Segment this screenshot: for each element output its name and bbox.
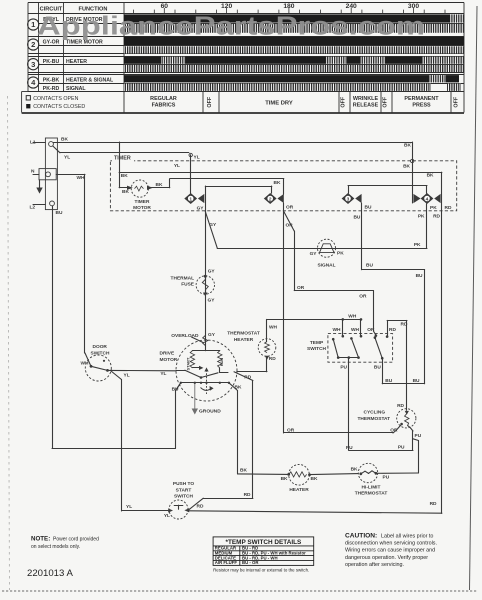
svg-text:YL: YL	[126, 504, 132, 510]
svg-text:HEATER: HEATER	[234, 337, 254, 343]
svg-text:PK: PK	[337, 251, 344, 257]
svg-text:BK: BK	[235, 384, 242, 390]
svg-text:SWITCH: SWITCH	[174, 493, 193, 499]
svg-text:BK: BK	[403, 164, 410, 170]
svg-text:RD: RD	[397, 403, 404, 409]
svg-text:BK: BK	[404, 143, 411, 149]
svg-text:BU: BU	[56, 210, 63, 216]
svg-text:GY: GY	[310, 251, 318, 257]
svg-text:2201013 A: 2201013 A	[27, 568, 73, 579]
svg-text:RUN: RUN	[219, 358, 224, 367]
svg-text:PRESS: PRESS	[412, 103, 431, 109]
svg-text:RD: RD	[433, 213, 440, 219]
svg-text:FUSE: FUSE	[181, 282, 195, 288]
svg-text:PU: PU	[415, 433, 422, 439]
svg-text:REGULAR: REGULAR	[150, 96, 177, 102]
svg-text:BK: BK	[281, 476, 288, 482]
svg-text:RD: RD	[389, 327, 396, 333]
svg-text:GY: GY	[208, 298, 216, 304]
svg-text:WH: WH	[81, 361, 90, 367]
svg-text:OFF: OFF	[341, 96, 347, 107]
svg-text:BK: BK	[121, 173, 128, 179]
svg-text:GY: GY	[208, 269, 216, 275]
svg-text:TIMER: TIMER	[135, 199, 150, 205]
svg-text:GY: GY	[197, 205, 205, 211]
svg-text:DRIVE: DRIVE	[160, 351, 175, 357]
svg-text:dangerous operation. Verify pr: dangerous operation. Verify proper	[345, 555, 428, 561]
svg-text:WH: WH	[269, 324, 278, 330]
svg-text:3: 3	[347, 196, 350, 202]
svg-text:BU: BU	[172, 387, 179, 393]
svg-text:PK-BU: PK-BU	[43, 59, 60, 65]
svg-text:SWITCH: SWITCH	[91, 350, 110, 356]
svg-text:TIMER: TIMER	[114, 155, 131, 161]
svg-text:SIGNAL: SIGNAL	[317, 263, 335, 269]
svg-text:FABRICS: FABRICS	[152, 103, 176, 109]
svg-text:BK: BK	[156, 182, 163, 188]
svg-text:RD: RD	[445, 205, 452, 211]
svg-text:PK-RD: PK-RD	[43, 86, 60, 92]
svg-text:YL: YL	[164, 513, 170, 519]
svg-text:CONTACTS CLOSED: CONTACTS CLOSED	[33, 104, 85, 110]
svg-text:BU: BU	[413, 378, 420, 384]
svg-text:PK-BK: PK-BK	[43, 78, 60, 84]
svg-text:AppliancePartsPros.com: AppliancePartsPros.com	[37, 13, 425, 41]
svg-text:PUSH TO: PUSH TO	[173, 481, 195, 487]
svg-text:2: 2	[269, 196, 272, 202]
svg-text:OR: OR	[367, 327, 375, 333]
svg-text:YL: YL	[160, 371, 166, 377]
svg-text:PERMANENT: PERMANENT	[404, 96, 439, 102]
svg-text:WH: WH	[351, 327, 360, 333]
svg-text:180: 180	[283, 3, 294, 10]
svg-text:PK: PK	[430, 205, 437, 211]
svg-text:OR: OR	[286, 204, 294, 210]
svg-text:1: 1	[189, 196, 192, 202]
svg-text:MOTOR: MOTOR	[133, 205, 151, 211]
svg-text:SIGNAL: SIGNAL	[66, 86, 86, 92]
svg-text:Wiring errors can cause improp: Wiring errors can cause improper and	[345, 548, 435, 554]
svg-text:HI-LIMIT: HI-LIMIT	[362, 485, 381, 491]
svg-text:OR: OR	[287, 428, 295, 434]
svg-text:on select models only.: on select models only.	[31, 544, 80, 550]
svg-text:TIME DRY: TIME DRY	[265, 101, 293, 107]
svg-text:BK: BK	[122, 189, 129, 195]
svg-text:BU: BU	[416, 273, 423, 279]
svg-text:300: 300	[408, 3, 419, 10]
svg-text:4: 4	[426, 196, 429, 202]
svg-text:START: START	[185, 357, 190, 370]
svg-text:BK: BK	[427, 173, 434, 179]
svg-text:GY: GY	[209, 222, 217, 228]
svg-text:2: 2	[31, 40, 35, 49]
svg-text:BK: BK	[311, 476, 318, 482]
svg-text:BK: BK	[274, 180, 281, 186]
svg-text:PU: PU	[383, 474, 390, 480]
svg-text:RD: RD	[269, 356, 276, 362]
svg-text:PK: PK	[418, 213, 425, 219]
svg-text:WH: WH	[348, 314, 357, 320]
svg-text:YL: YL	[194, 154, 200, 160]
svg-text:YL: YL	[124, 373, 130, 379]
svg-text:CYCLING: CYCLING	[364, 410, 386, 416]
svg-text:Label all wires prior to: Label all wires prior to	[381, 534, 433, 540]
svg-text:GY: GY	[208, 332, 216, 338]
svg-text:START: START	[176, 487, 192, 493]
svg-text:SWITCH: SWITCH	[307, 346, 326, 352]
svg-text:OR: OR	[390, 428, 398, 434]
svg-text:*TEMP SWITCH DETAILS: *TEMP SWITCH DETAILS	[226, 539, 302, 546]
svg-text:L1: L1	[30, 140, 36, 146]
svg-text:disconnection when servicing c: disconnection when servicing controls.	[345, 541, 437, 547]
svg-text:240: 240	[346, 3, 357, 10]
svg-text:operation after servicing.: operation after servicing.	[345, 562, 404, 568]
svg-text:OFF: OFF	[383, 96, 389, 107]
svg-text:GROUND: GROUND	[199, 409, 221, 415]
svg-text:RD: RD	[197, 504, 204, 510]
svg-text:CAUTION:: CAUTION:	[345, 533, 377, 540]
svg-text:BK: BK	[240, 468, 247, 474]
svg-text:WH: WH	[333, 327, 342, 333]
svg-text:PU: PU	[340, 365, 347, 371]
svg-text:60: 60	[161, 3, 169, 10]
svg-text:OR: OR	[297, 285, 305, 291]
svg-text:DOOR: DOOR	[93, 344, 108, 350]
svg-text:Resistor may be internal or ex: Resistor may be internal or external to …	[213, 567, 309, 572]
svg-text:WRINKLE: WRINKLE	[353, 96, 379, 102]
svg-text:RELEASE: RELEASE	[353, 103, 379, 109]
svg-text:NOTE:: NOTE:	[31, 536, 50, 543]
svg-text:HEATER: HEATER	[66, 59, 87, 65]
svg-text:BU: BU	[374, 365, 381, 371]
svg-text:OVERLOAD: OVERLOAD	[171, 333, 199, 339]
svg-text:PK: PK	[414, 242, 421, 248]
svg-text:HEATER & SIGNAL: HEATER & SIGNAL	[66, 78, 114, 84]
svg-text:BU: BU	[385, 378, 392, 384]
svg-text:OR: OR	[286, 223, 294, 229]
svg-text:BU - OR: BU - OR	[242, 560, 259, 565]
svg-text:THERMOSTAT: THERMOSTAT	[358, 416, 391, 422]
svg-text:FUNCTION: FUNCTION	[79, 6, 108, 12]
svg-text:3: 3	[31, 60, 35, 69]
svg-text:120: 120	[221, 3, 232, 10]
svg-text:BU: BU	[366, 263, 373, 269]
svg-text:WH: WH	[77, 175, 86, 181]
svg-text:AIR FLUFF: AIR FLUFF	[215, 560, 238, 565]
svg-text:Power cord provided: Power cord provided	[53, 537, 99, 543]
svg-text:CIRCUIT: CIRCUIT	[40, 6, 63, 12]
svg-text:PU: PU	[398, 445, 405, 451]
svg-text:BK: BK	[351, 467, 358, 473]
svg-text:THERMOSTAT: THERMOSTAT	[355, 491, 388, 497]
svg-text:RD: RD	[244, 492, 251, 498]
svg-text:THERMOSTAT: THERMOSTAT	[227, 331, 260, 337]
svg-text:OFF: OFF	[207, 96, 213, 107]
svg-text:THERMAL: THERMAL	[171, 275, 195, 281]
svg-text:YL: YL	[64, 155, 70, 161]
svg-text:HEATER: HEATER	[289, 487, 309, 493]
svg-text:BK: BK	[61, 136, 68, 142]
svg-text:OR: OR	[359, 294, 367, 300]
svg-text:CONTACTS OPEN: CONTACTS OPEN	[33, 96, 78, 102]
svg-text:TEMP: TEMP	[310, 340, 324, 346]
svg-text:MOTOR: MOTOR	[160, 357, 178, 363]
svg-text:BU: BU	[353, 215, 360, 221]
svg-text:BU: BU	[365, 204, 372, 210]
svg-text:RD: RD	[401, 321, 408, 327]
svg-text:YL: YL	[174, 163, 180, 169]
svg-text:PU: PU	[346, 445, 353, 451]
svg-text:RD: RD	[244, 374, 251, 380]
svg-text:OFF: OFF	[454, 96, 460, 107]
svg-text:L2: L2	[30, 205, 36, 211]
svg-text:N: N	[31, 169, 35, 175]
svg-text:RD: RD	[430, 501, 437, 507]
